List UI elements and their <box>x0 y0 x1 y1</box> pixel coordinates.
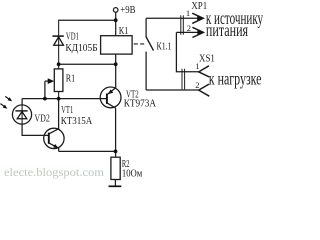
node VD1-R1 / relay bottom wire <box>57 62 61 66</box>
socket pin 1 fork <box>199 66 210 77</box>
light arrow 1 <box>5 96 9 99</box>
svg-text:к нагрузке: к нагрузке <box>209 68 262 88</box>
wire XP1 pin2 <box>176 31 200 33</box>
wire top rail <box>59 19 116 21</box>
wire R2 to ground <box>114 180 116 187</box>
wire contact bottom to XS1 pin2 <box>146 89 199 91</box>
node dots <box>43 18 118 153</box>
svg-text:10Ом: 10Ом <box>122 168 143 179</box>
wire XP1 pin2 down to XS1 pin1 <box>176 32 198 71</box>
wire VD2 top drop <box>21 99 23 106</box>
resistor R2 <box>111 157 120 179</box>
wire mid horizontal (node between VD1 and relay) <box>59 63 116 65</box>
wire left vertical <box>58 20 60 70</box>
photodiode VD2 <box>12 105 31 124</box>
svg-text:1: 1 <box>186 8 190 18</box>
svg-text:2: 2 <box>187 23 191 33</box>
svg-text:VD1: VD1 <box>66 32 79 43</box>
connector XS1 body <box>181 69 183 90</box>
svg-text:2: 2 <box>195 80 199 90</box>
socket pin 2 fork <box>199 84 210 96</box>
wire relay bottom to VT2 emitter <box>115 54 117 88</box>
svg-text:питания: питания <box>206 20 248 40</box>
svg-text:КД105Б: КД105Б <box>65 43 97 54</box>
ground <box>109 185 122 187</box>
wire VT2 collector vertical <box>115 108 117 157</box>
node R1 bottom rail <box>57 97 61 101</box>
transistor VT1 <box>44 128 64 148</box>
wire VT1 collector vertical <box>58 99 60 129</box>
plug pin 1 arrow <box>192 13 203 23</box>
resistor R1 <box>54 69 63 92</box>
wire relay feed vertical <box>115 20 117 36</box>
wire bottom horizontal <box>59 150 116 152</box>
svg-text:К1: К1 <box>119 26 129 37</box>
relay coil K1 <box>101 36 133 54</box>
svg-text:ХS1: ХS1 <box>199 53 215 64</box>
light arrow 2 <box>0 104 4 107</box>
svg-text:КТ315А: КТ315А <box>61 116 93 127</box>
terminal +9V <box>115 12 117 20</box>
wire main lower horizontal <box>22 98 107 100</box>
plug pin 2 arrow <box>192 27 203 37</box>
diode VD1 <box>52 36 63 45</box>
svg-text:1: 1 <box>195 61 199 71</box>
svg-text:+9В: +9В <box>120 5 135 16</box>
wire VD2 bottom to VT1 base <box>22 124 49 135</box>
transistor VT2 <box>100 87 121 108</box>
node VT2 collector / R2 <box>114 150 118 154</box>
svg-text:VD2: VD2 <box>34 113 50 124</box>
wire XP1 pin1 <box>146 17 201 19</box>
node top rail / relay feed <box>114 18 118 22</box>
connector XP1 body <box>180 15 182 34</box>
wiper arrow of R1 <box>44 81 46 99</box>
svg-text:ХР1: ХР1 <box>191 1 207 12</box>
node wiper to rail <box>43 97 47 101</box>
svg-text:electe.blogspot.com: electe.blogspot.com <box>4 165 105 179</box>
dashed link relay to contact <box>134 43 146 45</box>
svg-text:К1.1: К1.1 <box>157 41 172 52</box>
svg-text:R1: R1 <box>66 74 76 85</box>
svg-text:VT1: VT1 <box>61 105 73 116</box>
contact K1.1 <box>145 18 147 36</box>
node relay bottom wire right <box>114 62 118 66</box>
svg-text:КТ973А: КТ973А <box>124 99 157 110</box>
wire VT1 emitter to bottom rail <box>58 148 60 151</box>
